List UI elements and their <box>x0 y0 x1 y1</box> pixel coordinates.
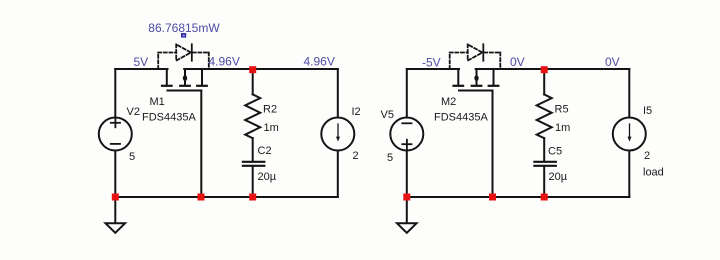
transistor M2 (PMOS FDS4435A) <box>454 69 499 91</box>
wire M2 gate to ground rail <box>492 91 494 198</box>
node C2 ground junction <box>249 194 256 201</box>
wire V2 bottom lead <box>114 151 116 198</box>
svg-text:20µ: 20µ <box>549 171 568 183</box>
svg-text:M1: M1 <box>150 96 165 108</box>
wire V5 bottom lead <box>406 151 408 198</box>
wire bottom ground rail (left circuit) <box>115 196 337 198</box>
wire R5-C5 interconnect <box>543 138 545 161</box>
svg-text:0V: 0V <box>510 55 525 69</box>
svg-text:4.96V: 4.96V <box>209 55 240 69</box>
svg-text:I5: I5 <box>643 105 652 117</box>
wire top-left input net (5V) <box>115 68 167 70</box>
wire V2 top lead <box>114 69 116 118</box>
svg-text:load: load <box>643 167 664 179</box>
wire R2-C2 interconnect <box>252 138 254 161</box>
node junction squares (red) <box>112 66 548 200</box>
current source I5 <box>613 118 646 151</box>
wire top-right output net (4.96V) <box>184 68 338 70</box>
wire R2 top lead from node <box>252 69 254 94</box>
wire R5 top lead from node <box>543 69 545 94</box>
ground (right circuit) <box>397 197 417 233</box>
svg-text:FDS4435A: FDS4435A <box>434 112 488 124</box>
node R2 top junction <box>249 66 256 73</box>
svg-text:20µ: 20µ <box>258 171 277 183</box>
node V5 ground junction <box>403 194 410 201</box>
svg-text:V5: V5 <box>381 109 394 121</box>
svg-text:5: 5 <box>387 152 393 164</box>
transistor M1 (PMOS FDS4435A) <box>162 69 207 91</box>
body diode of M2 (dashed) <box>450 44 501 69</box>
node M2 gate ground junction <box>489 194 496 201</box>
node M1 gate ground junction <box>198 194 205 201</box>
power probe marker <box>181 33 186 38</box>
svg-text:1m: 1m <box>264 122 279 134</box>
svg-text:I2: I2 <box>352 106 361 118</box>
wire I2 top lead <box>337 69 339 118</box>
wire top-right output net (0V) <box>476 68 630 70</box>
capacitor C2 <box>243 162 264 166</box>
wire C2 bottom lead <box>252 167 254 198</box>
svg-text:R2: R2 <box>263 104 277 116</box>
svg-text:2: 2 <box>644 150 650 162</box>
svg-text:0V: 0V <box>605 55 620 69</box>
svg-text:86.76815mW: 86.76815mW <box>148 21 220 35</box>
ground (left circuit) <box>106 197 126 233</box>
wire M1 gate to ground rail <box>200 91 202 198</box>
svg-text:2: 2 <box>353 150 359 162</box>
svg-text:4.96V: 4.96V <box>304 55 335 69</box>
wire C5 bottom lead <box>543 167 545 198</box>
svg-text:1m: 1m <box>555 122 570 134</box>
svg-text:5V: 5V <box>134 55 149 69</box>
node V2 ground junction <box>112 194 119 201</box>
voltage source V2 <box>99 118 132 151</box>
svg-text:V2: V2 <box>127 106 140 118</box>
svg-text:FDS4435A: FDS4435A <box>142 112 196 124</box>
resistor R5 <box>537 94 552 138</box>
wire top-left input net (-5V) <box>407 68 459 70</box>
svg-text:R5: R5 <box>555 104 569 116</box>
wire V5 top lead <box>406 69 408 118</box>
voltage source V5 (minus on top) <box>390 118 423 151</box>
wire I2 bottom lead <box>337 151 339 198</box>
capacitor C5 <box>534 162 555 166</box>
wire I5 bottom lead <box>628 151 630 198</box>
body diode of M1 (dashed) <box>158 44 209 69</box>
node C5 ground junction <box>541 194 548 201</box>
node R5 top junction <box>541 66 548 73</box>
svg-text:C2: C2 <box>258 145 272 157</box>
current source I2 <box>321 118 354 151</box>
wire I5 top lead <box>628 69 630 118</box>
svg-text:M2: M2 <box>441 96 456 108</box>
wire bottom ground rail (right circuit) <box>407 196 630 198</box>
svg-text:5: 5 <box>129 151 135 163</box>
resistor R2 <box>245 94 260 138</box>
svg-text:C5: C5 <box>548 146 562 158</box>
svg-text:-5V: -5V <box>422 56 441 70</box>
